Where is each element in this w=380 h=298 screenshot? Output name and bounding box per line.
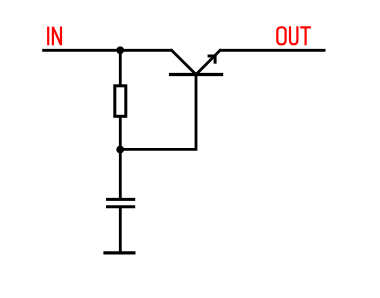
node: junction of resistor, base wire and capacitor	[116, 146, 124, 154]
wire: lower junction right and up to transistor base	[120, 75, 196, 149]
wire: IN net horizontal wire	[42, 49, 172, 52]
transistor Q1	[169, 50, 223, 74]
resistor (IEC box)	[115, 86, 126, 117]
wire: lower junction down to capacitor	[119, 150, 122, 200]
node OUT (net label)	[277, 26, 311, 45]
ground	[103, 251, 135, 254]
wire: OUT net horizontal wire	[220, 49, 326, 52]
capacitor	[106, 199, 135, 206]
collector lead (diagonal from IN wire)	[172, 50, 196, 74]
wire: resistor bottom to lower junction	[119, 117, 122, 150]
wire: junction down to resistor	[119, 50, 122, 85]
node: junction of IN wire and resistor top	[116, 46, 124, 54]
node IN (net label)	[48, 27, 61, 46]
emitter arrow	[208, 56, 216, 64]
wire: capacitor to ground	[119, 207, 122, 253]
emitter lead (diagonal up-right)	[196, 50, 220, 74]
base bar	[169, 73, 223, 76]
